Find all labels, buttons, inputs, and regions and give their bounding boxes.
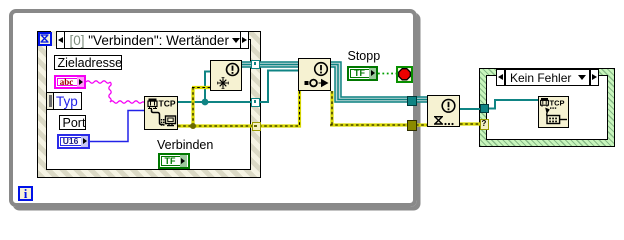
svg-text:TCP: TCP bbox=[159, 99, 176, 109]
svg-text:TCP: TCP bbox=[550, 99, 565, 108]
